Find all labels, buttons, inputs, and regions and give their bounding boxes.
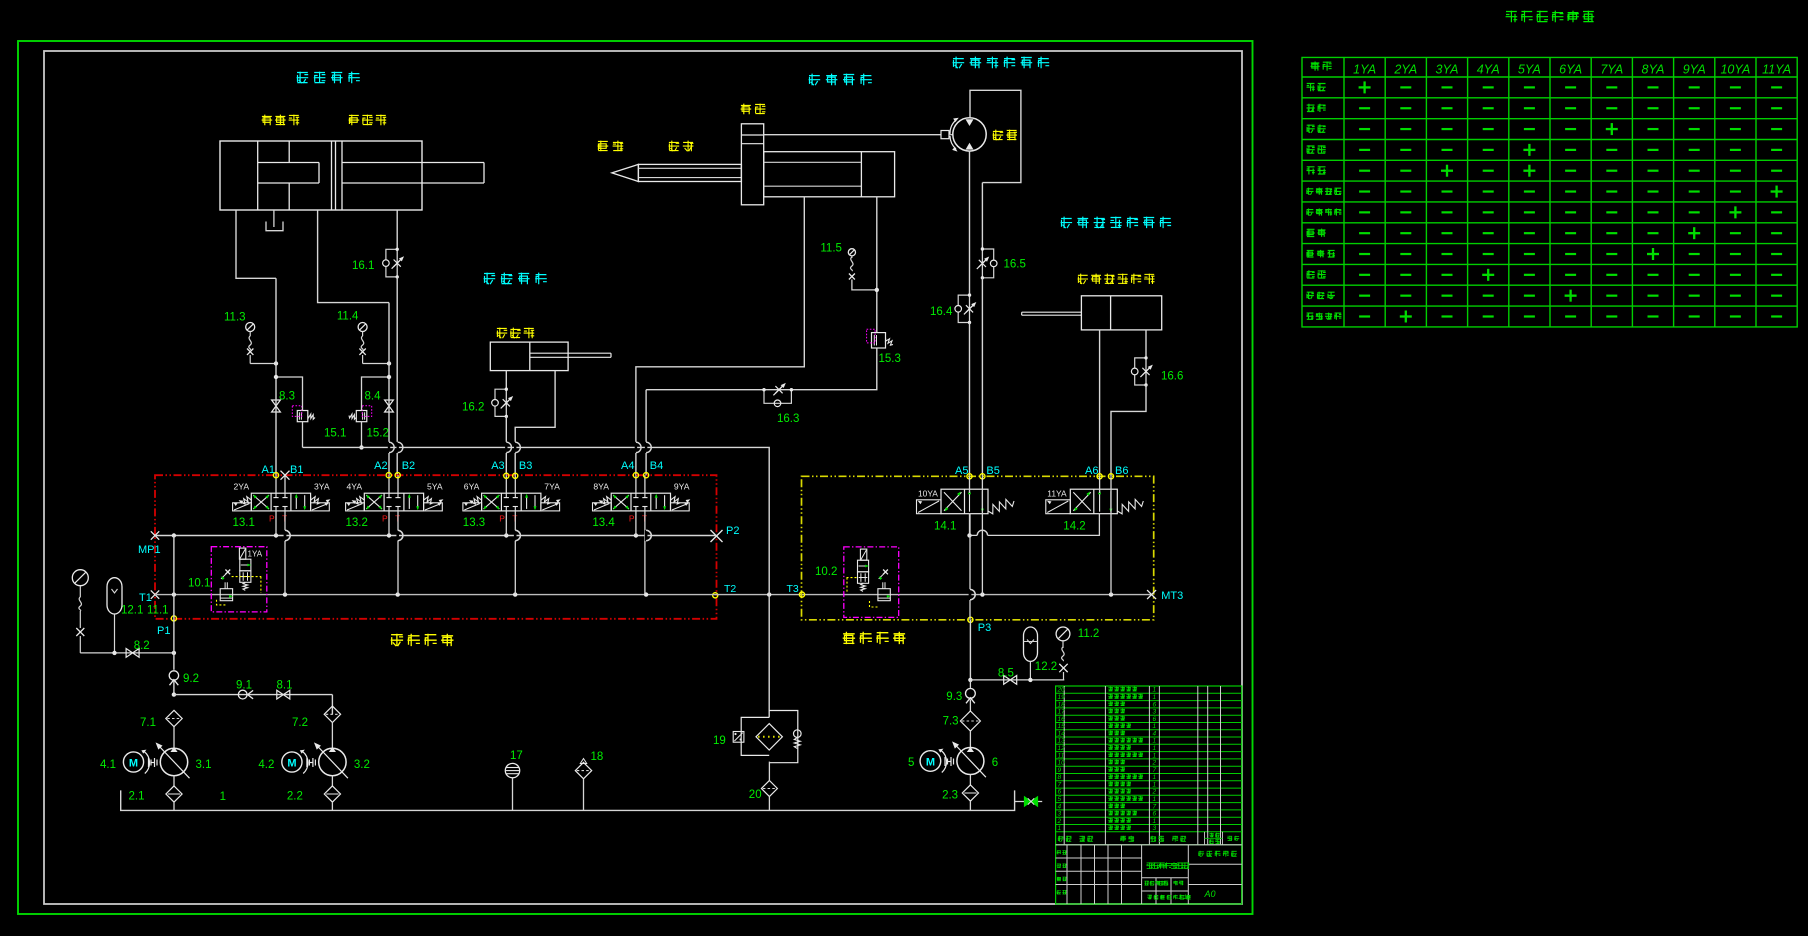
wire injection cyl left port to A4 riser <box>636 197 804 475</box>
svg-text:16.5: 16.5 <box>1004 259 1026 271</box>
suction filter 2.2 <box>331 776 333 786</box>
10.2 relief element <box>878 589 890 601</box>
wire booster left block port to node A1 line <box>236 210 276 278</box>
svg-text:11.1: 11.1 <box>147 605 169 617</box>
motor drive shaft line <box>764 134 941 136</box>
directional valve 13.4 body <box>611 493 670 511</box>
10.2 solenoid mini valve <box>860 549 866 560</box>
svg-text:18: 18 <box>591 751 604 763</box>
one-way throttle 16.3 horizontal <box>764 390 791 404</box>
wire motor to 16.4 (A5 riser) <box>969 151 971 295</box>
wire 15.1 pilot branch from A1 line <box>276 377 303 411</box>
svg-text:11: 11 <box>1058 752 1065 759</box>
check valve 9.1 <box>238 690 247 699</box>
tank drain branch with shutoff <box>1015 801 1043 803</box>
svg-text:4.2: 4.2 <box>258 759 274 771</box>
label motor 马达 <box>993 130 1017 141</box>
svg-text:A4: A4 <box>621 460 634 472</box>
parts list and title block <box>1056 686 1242 904</box>
electric motor 4.2 <box>282 752 302 772</box>
wire booster rod port step to A2 line <box>318 210 389 303</box>
wire 16.6 step to B6 <box>1111 385 1146 476</box>
svg-text:5: 5 <box>908 757 914 769</box>
node T1 plug X <box>151 590 159 598</box>
svg-text:14.2: 14.2 <box>1063 521 1085 533</box>
svg-text:10YA: 10YA <box>1720 63 1750 77</box>
wire clamp cylinder port down (B2 line top) <box>396 210 398 249</box>
svg-text:11.5: 11.5 <box>820 243 842 255</box>
wire 15.2 pilot branch from A2 line <box>362 377 390 411</box>
svg-text:8: 8 <box>1058 774 1062 781</box>
pump 3.1 coupling <box>148 758 150 767</box>
svg-text:B4: B4 <box>650 460 663 472</box>
svg-text:3: 3 <box>1058 811 1062 818</box>
node MP1 plug X <box>151 531 159 539</box>
return filter 19 assembly <box>741 717 769 755</box>
wire 11.3 to A1 line <box>250 363 276 365</box>
svg-text:3YA: 3YA <box>1436 63 1459 77</box>
wire B6 through valve to T bus <box>1110 476 1112 594</box>
svg-text:2: 2 <box>1152 789 1157 796</box>
port B5 yellow circle <box>980 474 985 479</box>
svg-text:9: 9 <box>1058 767 1062 774</box>
wire 11.4 to A2 line <box>363 363 389 365</box>
wire carriage right port through 16.6 <box>1145 330 1147 358</box>
filter 7.2 <box>324 706 340 722</box>
pilot valve 15.3 <box>872 333 886 348</box>
label carriage cylinder 注射座移动缸 <box>1078 274 1155 284</box>
label clamp cylinder 和模缸 <box>349 115 387 126</box>
svg-text:8.4: 8.4 <box>365 391 382 403</box>
filter 20 <box>761 781 777 797</box>
svg-text:7.3: 7.3 <box>943 716 959 728</box>
wire A5 riser 16.4 to port A5 <box>969 323 971 477</box>
svg-text:3: 3 <box>1153 825 1157 832</box>
svg-text:4.1: 4.1 <box>100 759 116 771</box>
port A1 yellow circle <box>273 473 278 478</box>
wire 15.1 drain to return bus <box>302 422 304 448</box>
svg-text:P: P <box>499 514 505 524</box>
svg-text:5YA: 5YA <box>427 482 443 492</box>
svg-text:10: 10 <box>1058 760 1066 767</box>
directional valve 13.2 body <box>364 493 423 511</box>
port P1 yellow circle <box>171 616 176 621</box>
svg-text:M: M <box>129 758 138 770</box>
valve 13.2 left solenoid+spring <box>346 503 365 511</box>
wire loop to 16.5 (B5 riser) <box>981 183 983 249</box>
gauge line to P1 riser <box>80 652 174 654</box>
svg-text:2.3: 2.3 <box>942 790 958 802</box>
port B3 yellow circle <box>513 473 518 478</box>
svg-text:P2: P2 <box>726 525 739 537</box>
valve 13.3 left solenoid+spring <box>463 503 482 511</box>
valve 8.4 shutoff on A2 line <box>385 400 394 406</box>
motor shaft coupling <box>941 131 949 139</box>
parts list column lines <box>1063 686 1065 845</box>
port P3 yellow circle <box>968 617 973 622</box>
label main manifold 主集成块 <box>391 634 454 646</box>
valve 14.1 internal arrows <box>969 491 971 512</box>
wire 15.2 drain to return bus <box>361 422 363 448</box>
svg-text:1YA: 1YA <box>1353 63 1376 77</box>
svg-text:7YA: 7YA <box>1600 63 1623 77</box>
air filter 18 <box>575 762 591 778</box>
accumulator 11.1 <box>107 578 122 614</box>
tank line <box>121 790 1015 810</box>
one-way throttle 16.4 <box>969 295 971 322</box>
svg-text:7YA: 7YA <box>544 482 560 492</box>
wire A6 into valve 14.2 <box>1099 476 1101 493</box>
svg-text:P: P <box>269 514 275 524</box>
shutoff valve 8.5 <box>1004 676 1011 685</box>
svg-text:P: P <box>382 514 388 524</box>
svg-text:1: 1 <box>1058 825 1062 832</box>
svg-text:6: 6 <box>1153 701 1157 708</box>
valve 14.2 solenoid <box>1046 500 1071 514</box>
solenoid table headers <box>1311 62 1332 71</box>
solenoid table rows <box>1307 83 1326 91</box>
aux manifold boundary (yellow dash-dot) <box>802 476 1154 620</box>
nozzle triangle 喷嘴 <box>612 164 639 181</box>
electric motor 5 <box>920 751 941 772</box>
svg-text:16.6: 16.6 <box>1161 371 1183 383</box>
svg-text:7: 7 <box>1153 767 1157 774</box>
return bus to filter 19 <box>303 447 770 594</box>
shutoff valve 8.1 <box>277 690 284 699</box>
pilot relief valve 15.2 <box>356 411 367 422</box>
title injection system 注射系统 <box>809 74 872 86</box>
pilot unload valve 10.1 (magenta box) <box>211 547 266 612</box>
valve 14.2 internal arrows <box>1099 491 1101 512</box>
svg-text:15.1: 15.1 <box>324 428 346 440</box>
suction filter 2.3 <box>969 775 971 786</box>
svg-text:4: 4 <box>1153 730 1157 737</box>
svg-text:6YA: 6YA <box>464 482 480 492</box>
port B2 yellow circle <box>395 473 400 478</box>
aux header line <box>970 679 1064 681</box>
valve 13.3 A/B stubs and P/T drops <box>505 475 507 493</box>
svg-text:15.2: 15.2 <box>367 428 389 440</box>
svg-text:18: 18 <box>1058 701 1066 708</box>
valve 14.1 spring <box>988 499 1014 514</box>
svg-text:13.1: 13.1 <box>233 517 255 529</box>
wire header to filter 7.2 <box>331 695 333 715</box>
svg-text:1: 1 <box>1153 781 1157 788</box>
directional valve 14.2 body <box>1070 489 1117 514</box>
suction filter 2.1 <box>173 776 175 786</box>
svg-text:3.2: 3.2 <box>354 759 370 771</box>
port A4 yellow circle <box>633 473 638 478</box>
port T3 yellow circle <box>799 592 804 597</box>
svg-text:13.4: 13.4 <box>592 517 615 529</box>
node P2 plug X <box>711 530 723 542</box>
wire 15.3 to 16.3 line <box>646 348 877 390</box>
valve 13.2 A/B stubs and P/T drops <box>388 475 390 493</box>
gauge shutoff 11.5 <box>848 249 855 256</box>
pump 3.2 coupling <box>306 758 308 767</box>
svg-text:1:1: 1:1 <box>1178 894 1187 901</box>
svg-text:9YA: 9YA <box>1683 63 1706 77</box>
variable pump 3.2 <box>319 748 346 775</box>
label barrel 料筒 <box>669 141 694 152</box>
oil level gauge 17 <box>505 763 519 777</box>
svg-text:11.3: 11.3 <box>224 312 246 324</box>
svg-text:6: 6 <box>1153 811 1157 818</box>
svg-text:19: 19 <box>713 735 726 747</box>
drawing border outer green frame <box>18 41 1253 914</box>
pump 6 coupling <box>944 757 946 766</box>
svg-text:3.1: 3.1 <box>196 759 212 771</box>
P1 riser from MP bus to pump <box>173 536 175 619</box>
svg-text:MT3: MT3 <box>1161 590 1183 602</box>
svg-text:17: 17 <box>1058 709 1066 716</box>
one-way throttle 16.5 <box>981 249 983 278</box>
svg-text:B6: B6 <box>1115 465 1128 477</box>
svg-text:10.2: 10.2 <box>815 566 837 578</box>
title clamping system 合模系统 <box>297 72 360 84</box>
valve 8.3 shutoff on A1 line <box>272 400 281 406</box>
svg-text:2YA: 2YA <box>1393 63 1417 77</box>
wire injection cyl right port down (B4 riser) <box>876 197 878 333</box>
svg-text:8.5: 8.5 <box>998 668 1014 680</box>
svg-text:M: M <box>287 758 296 770</box>
svg-text:7: 7 <box>1058 781 1062 788</box>
svg-text:T3: T3 <box>787 583 799 595</box>
check valve 9.2 <box>169 671 178 680</box>
line jumps on return bus <box>388 442 390 453</box>
svg-text:3: 3 <box>1153 709 1157 716</box>
node MT3 plug X <box>1147 590 1156 599</box>
svg-text:B3: B3 <box>519 460 532 472</box>
svg-text:P: P <box>629 514 635 524</box>
directional valve 13.1 body <box>251 493 310 511</box>
svg-text:7.1: 7.1 <box>140 717 156 729</box>
one-way throttle 16.6 <box>1145 358 1147 385</box>
valve 13.1 right solenoid+spring <box>311 503 330 511</box>
wire 14.1 P drop and cross line to 14.2 <box>969 514 971 536</box>
svg-text:10YA: 10YA <box>918 489 938 499</box>
svg-text:4YA: 4YA <box>1477 63 1500 77</box>
wire pusher right port step to B3 <box>515 371 555 476</box>
svg-text:20: 20 <box>749 789 762 801</box>
wire pusher left port through 16.2 to A3 <box>505 371 507 390</box>
svg-text:9.1: 9.1 <box>236 680 252 692</box>
svg-text:6: 6 <box>1058 789 1062 796</box>
svg-text:8.1: 8.1 <box>277 680 293 692</box>
svg-text:P1: P1 <box>157 625 170 637</box>
electric motor 4.1 <box>123 752 143 772</box>
wire carriage left port to A6 <box>1099 330 1101 476</box>
directional valve 14.1 body <box>941 489 988 514</box>
svg-text:1: 1 <box>1153 687 1157 694</box>
wire B5 through valve to T bus <box>981 476 983 594</box>
main manifold boundary (red dash-dot) <box>155 475 717 619</box>
svg-text:9.3: 9.3 <box>946 691 962 703</box>
label nozzle 喷嘴 <box>598 141 624 152</box>
svg-text:8YA: 8YA <box>1642 63 1665 77</box>
valve 13.4 right solenoid+spring <box>671 503 690 511</box>
svg-text:16.3: 16.3 <box>777 413 799 425</box>
svg-text:8.3: 8.3 <box>279 391 295 403</box>
svg-text:1: 1 <box>1153 752 1157 759</box>
svg-text:11YA: 11YA <box>1762 63 1791 77</box>
parts header strip <box>1058 836 1072 842</box>
svg-text:1: 1 <box>1153 818 1157 825</box>
svg-text:16.2: 16.2 <box>462 402 484 414</box>
directional valve 13.3 body <box>482 493 541 511</box>
pump header line <box>174 694 333 696</box>
title block texts <box>1146 862 1189 868</box>
svg-text:12.2: 12.2 <box>1035 661 1057 673</box>
svg-text:14: 14 <box>1058 730 1066 737</box>
pilot relief valve 15.1 <box>297 411 308 422</box>
svg-text:1: 1 <box>1153 745 1157 752</box>
10.2 pilot lines yellow dotted <box>847 577 857 579</box>
svg-text:13.3: 13.3 <box>463 517 485 529</box>
title pusher system 推料系统 <box>484 273 547 285</box>
svg-text:12.1: 12.1 <box>121 605 143 617</box>
wire A1 line from cylinder to port A1 <box>275 278 277 475</box>
svg-text:T1: T1 <box>139 592 152 604</box>
port B4 yellow circle <box>644 473 649 478</box>
svg-text:13: 13 <box>1058 738 1066 745</box>
svg-text:P3: P3 <box>978 622 991 634</box>
svg-text:20: 20 <box>1057 687 1066 694</box>
motor circuit loop <box>970 90 1021 182</box>
filter 7.1 <box>166 710 182 726</box>
svg-text:13.2: 13.2 <box>346 517 368 529</box>
port A6 yellow circle <box>1097 474 1102 479</box>
P3 line below aux box <box>969 620 971 680</box>
green drain valve <box>1025 797 1032 806</box>
10.1 relief element <box>220 589 232 601</box>
svg-text:A5: A5 <box>955 465 968 477</box>
title injection drive system 注射驱动系统 <box>953 57 1050 69</box>
valve 13.4 left solenoid+spring <box>593 503 612 511</box>
svg-text:16.1: 16.1 <box>352 260 374 272</box>
valve 13.4 A/B stubs and P/T drops <box>635 475 637 493</box>
valve 14.1 solenoid <box>917 500 942 514</box>
svg-text:6: 6 <box>992 757 998 769</box>
svg-text:11.4: 11.4 <box>337 311 359 323</box>
svg-text:4YA: 4YA <box>347 482 363 492</box>
port A2 yellow circle <box>386 473 391 478</box>
svg-text:1: 1 <box>1153 796 1157 803</box>
booster piston and rod <box>288 141 290 163</box>
svg-text:15.3: 15.3 <box>879 353 901 365</box>
svg-text:4: 4 <box>1058 803 1062 810</box>
svg-text:2: 2 <box>1057 818 1062 825</box>
booster+clamp cylinder assembly body <box>220 141 422 210</box>
svg-text:1: 1 <box>220 791 226 803</box>
svg-text:17: 17 <box>510 750 523 762</box>
pressure gauge 12.1 <box>72 570 88 586</box>
svg-text:7: 7 <box>1153 803 1157 810</box>
wire A2 line to port A2 <box>388 303 390 476</box>
wire B4 riser to port B4 <box>645 390 647 476</box>
label pusher cylinder 推料缸 <box>497 328 535 339</box>
pressure gauge 11.2 <box>1056 627 1070 641</box>
valve 14.2 spring <box>1117 499 1143 514</box>
svg-text:A3: A3 <box>491 460 504 472</box>
svg-text:A6: A6 <box>1085 465 1098 477</box>
label aux manifold 辅集成块 <box>843 632 906 644</box>
svg-text:2YA: 2YA <box>234 482 250 492</box>
wire B5 riser 16.5 to port B5 <box>981 278 983 477</box>
wire B2 line 16.1 to port B2 <box>396 277 398 475</box>
drain cup symbol under booster piston <box>273 210 275 227</box>
solenoid table grid <box>1302 57 1797 327</box>
svg-text:6YA: 6YA <box>1559 63 1582 77</box>
svg-text:1: 1 <box>1153 738 1157 745</box>
svg-text:16: 16 <box>1058 716 1066 723</box>
10.1 pilot lines yellow dotted <box>232 576 262 578</box>
svg-text:1: 1 <box>1153 723 1157 730</box>
valve 13.2 right solenoid+spring <box>424 503 443 511</box>
svg-text:9.2: 9.2 <box>183 673 199 685</box>
svg-text:14.1: 14.1 <box>934 521 956 533</box>
svg-text:19: 19 <box>1058 694 1066 701</box>
svg-text:M: M <box>926 757 935 769</box>
port B1 plugged X <box>281 471 290 480</box>
svg-text:B5: B5 <box>986 465 999 477</box>
barrel 料筒 <box>638 164 741 181</box>
drawing border inner white frame <box>44 51 1242 904</box>
svg-text:1YA: 1YA <box>248 550 263 559</box>
svg-text:1: 1 <box>1153 694 1157 701</box>
port A3 yellow circle <box>504 473 509 478</box>
line jump P3 riser over T bus <box>969 589 971 600</box>
pusher cylinder 推料缸 <box>490 342 568 371</box>
shutoff valve 8.2 <box>126 649 133 658</box>
10.1 solenoid mini valve <box>239 548 245 559</box>
label booster cylinder 增力缸 <box>262 115 300 126</box>
svg-text:2.2: 2.2 <box>287 791 303 803</box>
valve 13.3 right solenoid+spring <box>541 503 560 511</box>
clamp cylinder rod <box>342 162 484 164</box>
svg-text:9YA: 9YA <box>674 482 690 492</box>
svg-text:A1: A1 <box>262 464 275 476</box>
check valve 9.3 <box>969 680 971 689</box>
port A5 yellow circle <box>967 474 972 479</box>
variable pump 6 <box>957 748 984 775</box>
MP1 pressure bus <box>155 535 717 537</box>
svg-text:8.2: 8.2 <box>134 640 150 652</box>
T1 tank bus (T1-T2-T3-MT3) <box>155 594 1152 596</box>
one-way throttle valve 16.1 <box>396 249 398 277</box>
svg-text:6: 6 <box>1153 716 1157 723</box>
svg-text:1: 1 <box>1153 774 1157 781</box>
wire P3 riser <box>969 514 971 620</box>
accumulator 12.2 <box>1024 627 1038 661</box>
hydraulic motor 马达 <box>953 118 986 151</box>
svg-text:A2: A2 <box>374 460 387 472</box>
svg-text:5YA: 5YA <box>1518 63 1541 77</box>
one-way throttle 16.2 <box>505 389 507 416</box>
svg-text:B2: B2 <box>402 460 415 472</box>
line jumps on MP1 bus <box>284 530 286 541</box>
svg-text:12: 12 <box>1058 745 1066 752</box>
svg-text:15: 15 <box>1058 723 1066 730</box>
solenoid action table title 电磁铁动作表 <box>1506 11 1595 23</box>
pilot unload valve 10.2 (magenta box) <box>844 547 899 618</box>
svg-text:3YA: 3YA <box>314 482 330 492</box>
carriage cylinder 注射座移动缸 <box>1081 296 1161 330</box>
gauge shutoff 11.3 <box>246 323 255 332</box>
svg-text:T2: T2 <box>724 583 736 595</box>
svg-text:A0: A0 <box>1203 889 1215 899</box>
svg-text:5: 5 <box>1058 796 1062 803</box>
